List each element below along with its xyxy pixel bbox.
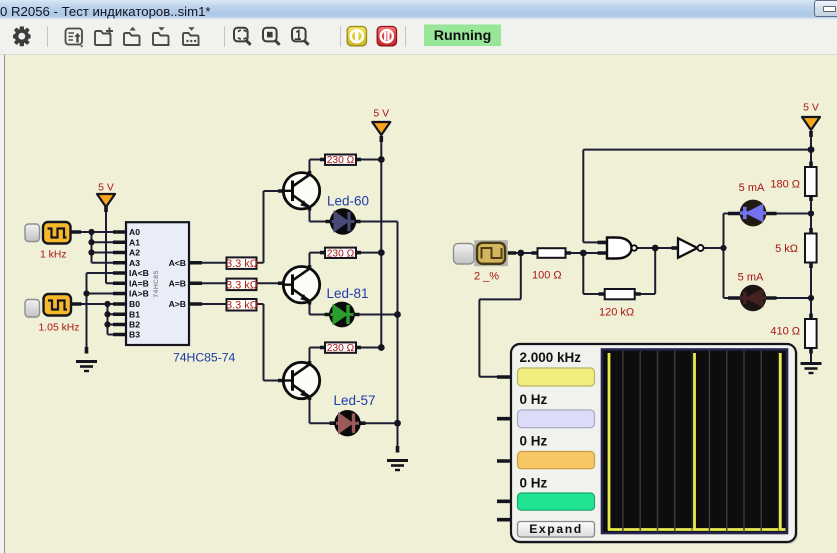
svg-text:A0: A0 <box>129 227 140 237</box>
svg-text:3.3 kΩ: 3.3 kΩ <box>226 258 258 270</box>
svg-text:5 V: 5 V <box>98 182 114 194</box>
svg-text:1 kHz: 1 kHz <box>40 250 67 261</box>
svg-text:A2: A2 <box>129 248 140 258</box>
svg-text:3.3 kΩ: 3.3 kΩ <box>226 279 258 291</box>
svg-text:IA=B: IA=B <box>129 279 149 289</box>
svg-text:230 Ω: 230 Ω <box>327 248 355 259</box>
svg-text:Running: Running <box>434 28 492 44</box>
svg-text:100 Ω: 100 Ω <box>532 270 562 282</box>
svg-text:0 Hz: 0 Hz <box>520 392 548 407</box>
svg-text:Led-60: Led-60 <box>327 194 369 209</box>
svg-text:3.3 kΩ: 3.3 kΩ <box>226 300 258 312</box>
svg-text:74HC85-74: 74HC85-74 <box>173 351 236 365</box>
svg-text:2.000 kHz: 2.000 kHz <box>520 350 582 365</box>
svg-text:IA>B: IA>B <box>129 289 149 299</box>
svg-text:5 V: 5 V <box>373 108 389 120</box>
svg-text:B2: B2 <box>129 320 140 330</box>
svg-text:1.05 kHz: 1.05 kHz <box>39 323 80 334</box>
svg-text:5 V: 5 V <box>803 102 819 114</box>
svg-text:0 Hz: 0 Hz <box>520 434 548 449</box>
svg-text:5 mA: 5 mA <box>739 182 765 194</box>
svg-text:Expand: Expand <box>529 522 583 536</box>
svg-text:B3: B3 <box>129 330 140 340</box>
svg-text:5 kΩ: 5 kΩ <box>775 243 798 255</box>
svg-text:A<B: A<B <box>169 258 186 268</box>
svg-text:B1: B1 <box>129 310 140 320</box>
svg-text:410 Ω: 410 Ω <box>770 326 800 338</box>
svg-text:180 Ω: 180 Ω <box>770 179 800 191</box>
svg-text:5 mA: 5 mA <box>738 272 764 284</box>
svg-text:A>B: A>B <box>169 299 186 309</box>
svg-text:Led-81: Led-81 <box>327 286 369 301</box>
svg-text:A=B: A=B <box>169 279 186 289</box>
svg-text:230 Ω: 230 Ω <box>327 155 355 166</box>
svg-text:A1: A1 <box>129 238 140 248</box>
svg-text:74HC85: 74HC85 <box>153 270 160 297</box>
svg-text:Led-57: Led-57 <box>334 393 376 408</box>
svg-text:120 kΩ: 120 kΩ <box>599 307 634 319</box>
svg-text:0 Hz: 0 Hz <box>520 476 548 491</box>
svg-text:IA<B: IA<B <box>129 268 149 278</box>
svg-text:2 _%: 2 _% <box>474 271 499 283</box>
svg-text:230 Ω: 230 Ω <box>327 343 355 354</box>
svg-text:B0: B0 <box>129 299 140 309</box>
svg-text:A3: A3 <box>129 258 140 268</box>
